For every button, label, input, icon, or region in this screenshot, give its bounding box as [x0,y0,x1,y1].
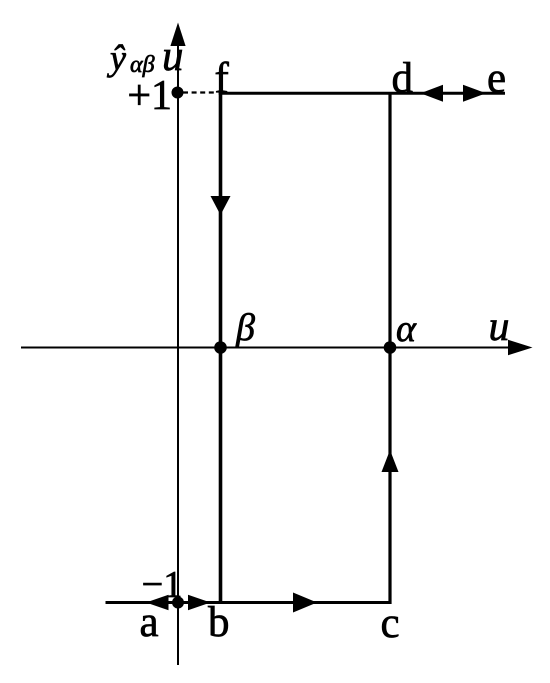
svg-text:e: e [487,55,506,102]
svg-text:f: f [215,55,230,102]
svg-text:b: b [208,599,230,646]
dot at -1 on y-axis [172,597,184,609]
dot at +1 on y-axis [172,87,184,99]
dashed line from +1 to f [183,91,217,93]
left arrowhead of d-e double arrow [421,85,444,102]
downward arrow on left segment [211,196,231,215]
svg-text:ŷ: ŷ [107,38,126,78]
svg-text:c: c [381,600,400,647]
y-axis vertical line [177,40,179,665]
svg-text:a: a [140,599,159,646]
y-axis arrowhead [170,23,185,47]
left arrowhead of a double arrow [146,595,169,611]
svg-text:β: β [235,307,255,349]
u-axis arrowhead [508,340,533,356]
loop bottom segment a-b-c [106,601,392,604]
right arrowhead of a double arrow [188,595,211,611]
svg-text:d: d [392,55,414,102]
u-axis horizontal line [21,347,512,349]
rightward arrow on bottom segment [293,593,317,613]
svg-text:α: α [396,308,417,350]
loop top segment f-d-e [219,92,505,95]
dot at node alpha [384,341,397,354]
dot at node beta [214,341,227,354]
svg-text:u: u [489,304,510,350]
svg-text:+1: +1 [127,73,172,119]
upward arrow on right segment [382,450,399,472]
loop right segment d-c [388,92,391,604]
loop left segment f-b [219,92,223,604]
right arrowhead of d-e double arrow [463,85,486,102]
